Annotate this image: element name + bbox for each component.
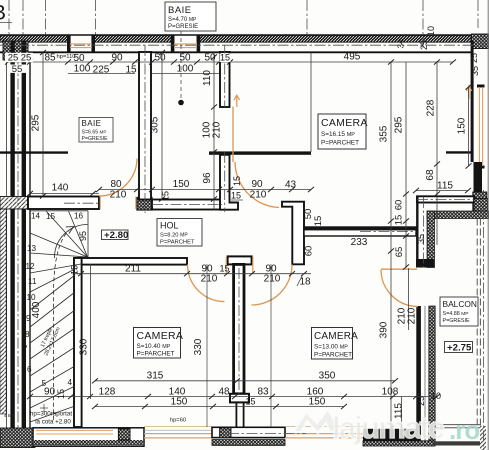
room label box: CAMERA bottom-right bbox=[312, 328, 359, 360]
svg-text:90: 90 bbox=[251, 179, 263, 190]
svg-text:295: 295 bbox=[394, 116, 405, 133]
baie-left south wall bbox=[0, 197, 28, 210]
svg-text:B: B bbox=[0, 2, 6, 25]
left bottom hatch block bbox=[0, 428, 35, 448]
room label box: CAMERA top-right bbox=[318, 114, 368, 149]
right page edge line bbox=[487, 0, 489, 450]
svg-text:HOL: HOL bbox=[160, 221, 179, 231]
svg-text:55: 55 bbox=[12, 64, 23, 75]
svg-text:228: 228 bbox=[426, 99, 437, 116]
svg-text:hp=300raportat: hp=300raportat bbox=[30, 411, 72, 418]
svg-text:S=8.20 MP: S=8.20 MP bbox=[160, 233, 188, 239]
left party wall bars bbox=[10, 41, 14, 428]
svg-text:140: 140 bbox=[52, 183, 69, 194]
svg-text:BAIE: BAIE bbox=[82, 119, 102, 128]
camera top-right south wall thick line bbox=[209, 151, 311, 154]
svg-text:150: 150 bbox=[171, 397, 188, 408]
svg-text:10: 10 bbox=[431, 391, 441, 401]
svg-text:25: 25 bbox=[469, 53, 479, 63]
right exterior wall upper black bar bbox=[471, 41, 474, 162]
stair walking line dashed with arrow bbox=[54, 228, 73, 420]
svg-text:12: 12 bbox=[26, 262, 36, 271]
svg-text:15: 15 bbox=[125, 65, 137, 76]
svg-text:P=GRESIE: P=GRESIE bbox=[443, 318, 471, 324]
svg-text:CAMERA: CAMERA bbox=[137, 330, 184, 342]
svg-text:100: 100 bbox=[74, 64, 91, 75]
camera-bl west wall bbox=[74, 258, 82, 427]
svg-text:lajumate: lajumate bbox=[332, 410, 445, 445]
right wall window (orange vertical) bbox=[477, 85, 485, 169]
svg-text:10: 10 bbox=[426, 26, 436, 36]
svg-text:+2.80: +2.80 bbox=[104, 230, 128, 241]
balcony door leaf and arc bbox=[381, 269, 418, 306]
svg-text:P=PARCHET: P=PARCHET bbox=[160, 240, 195, 246]
shower partition line in baie bbox=[0, 151, 68, 153]
door arc camera-bl bbox=[188, 265, 225, 302]
svg-text:50: 50 bbox=[154, 53, 166, 64]
camera/balcon wall below door bbox=[416, 306, 435, 446]
right edge gray hatch column bbox=[480, 426, 486, 450]
bottom wall: camera-bl window bbox=[144, 427, 212, 438]
wall x292 with top stub bbox=[282, 202, 304, 265]
dimension texts top row bbox=[5, 53, 33, 62]
svg-text:P=PARCHET: P=PARCHET bbox=[314, 352, 352, 359]
svg-text:350: 350 bbox=[319, 371, 336, 382]
svg-text:211: 211 bbox=[125, 264, 141, 275]
window W2 in top wall (baie sus) bbox=[171, 35, 200, 52]
bottom wall: hatch pier under camera-bl west bbox=[118, 429, 130, 440]
svg-text:50: 50 bbox=[179, 53, 191, 64]
balcony south edge lines bbox=[435, 424, 481, 426]
svg-text:4 5.5: 4 5.5 bbox=[4, 413, 15, 418]
right wall black band below window bbox=[474, 162, 483, 192]
svg-text:60: 60 bbox=[394, 200, 405, 211]
stair tread numbers bbox=[23, 212, 84, 389]
svg-text:95: 95 bbox=[78, 231, 88, 241]
door arc camera-br bbox=[252, 265, 293, 306]
svg-text:210: 210 bbox=[264, 274, 281, 285]
svg-text:50: 50 bbox=[204, 53, 216, 64]
bottom wall: camera-br window bbox=[285, 427, 363, 438]
baie door jambs bbox=[99, 197, 101, 210]
svg-text:34: 34 bbox=[397, 39, 406, 48]
watermark lajumate.ro bbox=[293, 409, 479, 445]
center T wall: cap bbox=[228, 256, 252, 264]
svg-text:90: 90 bbox=[44, 387, 56, 398]
svg-text:48: 48 bbox=[218, 387, 230, 398]
svg-text:210: 210 bbox=[407, 307, 418, 324]
dimension chain lines bbox=[8, 52, 469, 428]
svg-text:68: 68 bbox=[425, 169, 436, 181]
right wall hatch block bbox=[473, 192, 487, 212]
wall x220 upper segment bbox=[220, 52, 230, 107]
svg-text:13: 13 bbox=[27, 244, 37, 253]
svg-text:CAMERA: CAMERA bbox=[314, 331, 358, 342]
wall under baie-sus (hol north wall) bbox=[152, 200, 222, 210]
svg-text:390: 390 bbox=[379, 321, 390, 338]
bottom dim texts bbox=[44, 237, 441, 419]
room label box: CAMERA bottom-left bbox=[134, 328, 184, 359]
camera/balcon wall vertical bbox=[416, 197, 435, 268]
svg-text:295: 295 bbox=[31, 114, 42, 131]
room label box: BALCON bbox=[440, 297, 478, 326]
left edge vertical hatch strip bbox=[0, 198, 6, 414]
svg-text:100: 100 bbox=[177, 64, 194, 75]
svg-text:BAIE: BAIE bbox=[168, 5, 192, 16]
center T wall: foot bbox=[230, 394, 249, 403]
svg-text:210: 210 bbox=[110, 190, 127, 201]
orange arrow at right window bbox=[466, 85, 471, 99]
balcon north wall bbox=[417, 196, 474, 202]
svg-text:15: 15 bbox=[56, 389, 66, 399]
svg-text:210: 210 bbox=[201, 274, 218, 285]
svg-text:60: 60 bbox=[304, 246, 315, 257]
wall baie/hol vertical bbox=[139, 52, 151, 200]
svg-text:S=4.70 MP: S=4.70 MP bbox=[168, 17, 197, 23]
svg-text:25: 25 bbox=[8, 53, 19, 64]
staircase bbox=[30, 211, 88, 422]
svg-text:P=GRESIE: P=GRESIE bbox=[82, 136, 109, 142]
right side rotated dims bbox=[303, 99, 468, 338]
svg-text:S=4.88 MP: S=4.88 MP bbox=[443, 311, 469, 317]
svg-text:.ro: .ro bbox=[449, 415, 479, 445]
svg-text:15: 15 bbox=[231, 191, 241, 201]
svg-text:210: 210 bbox=[212, 121, 223, 138]
bottom wall: stair bay band bbox=[33, 428, 144, 446]
svg-text:15: 15 bbox=[46, 212, 56, 221]
level box +2.80 bbox=[102, 230, 129, 241]
svg-text:210: 210 bbox=[250, 190, 267, 201]
top-right corner hatch block bbox=[472, 34, 489, 49]
room label box: BAIE left bbox=[79, 118, 113, 143]
room label box: BAIE sus bbox=[165, 2, 216, 31]
svg-text:15: 15 bbox=[232, 176, 242, 186]
svg-text:25: 25 bbox=[416, 396, 426, 406]
svg-text:7: 7 bbox=[23, 345, 28, 354]
svg-text:115: 115 bbox=[437, 181, 453, 192]
svg-text:108: 108 bbox=[382, 387, 399, 398]
door dim row texts bbox=[52, 176, 311, 288]
svg-text:90: 90 bbox=[111, 53, 123, 64]
center T wall: stem bbox=[234, 264, 244, 393]
svg-text:P=PARCHET: P=PARCHET bbox=[137, 351, 175, 358]
svg-text:S=10.40 MP: S=10.40 MP bbox=[137, 343, 171, 350]
svg-text:la cota +2.80: la cota +2.80 bbox=[35, 419, 71, 426]
svg-text:35: 35 bbox=[416, 234, 426, 244]
door jambs orange at T cap bbox=[225, 257, 227, 274]
balcony bottom dark band bbox=[434, 441, 481, 445]
svg-text:11: 11 bbox=[28, 277, 37, 286]
camera-bl north wall bbox=[74, 258, 187, 265]
svg-text:96: 96 bbox=[202, 172, 213, 184]
baie door hinge hatch block bbox=[137, 198, 152, 211]
svg-text:15: 15 bbox=[161, 191, 171, 201]
svg-text:110: 110 bbox=[202, 70, 213, 86]
bottom wall: center pier bbox=[212, 427, 285, 437]
balcony east window lines bbox=[476, 219, 478, 427]
svg-text:25: 25 bbox=[21, 53, 32, 64]
svg-text:225: 225 bbox=[93, 65, 110, 76]
svg-text:4: 4 bbox=[68, 378, 73, 387]
svg-text:P=PARCHET: P=PARCHET bbox=[321, 140, 359, 147]
svg-text:S=16.15 MP: S=16.15 MP bbox=[321, 131, 355, 138]
level box +2.75 bbox=[445, 342, 473, 354]
door arc baie-left bbox=[99, 159, 137, 197]
svg-text:hp=60: hp=60 bbox=[170, 418, 186, 424]
svg-text:15: 15 bbox=[220, 53, 230, 63]
svg-text:65: 65 bbox=[394, 247, 405, 258]
room label box: HOL bbox=[157, 219, 202, 247]
svg-text:15: 15 bbox=[70, 265, 80, 275]
svg-text:6: 6 bbox=[27, 365, 32, 374]
svg-text:400: 400 bbox=[31, 301, 42, 318]
balcon hatch strip horizontal bbox=[427, 211, 489, 219]
svg-text:80: 80 bbox=[110, 179, 122, 190]
svg-text:83: 83 bbox=[257, 387, 269, 398]
wall x220 lower segment with foot bbox=[220, 155, 238, 210]
rotated dim texts left/top bbox=[31, 26, 481, 184]
svg-text:+2.75: +2.75 bbox=[447, 343, 472, 354]
bottom wall: black band right bbox=[363, 429, 417, 441]
svg-text:330: 330 bbox=[79, 338, 90, 355]
svg-text:330: 330 bbox=[193, 338, 204, 355]
svg-text:10: 10 bbox=[27, 293, 37, 302]
short wall stub right bbox=[446, 151, 473, 153]
svg-text:15: 15 bbox=[394, 215, 405, 226]
svg-text:14: 14 bbox=[31, 212, 41, 221]
top exterior wall hatched band bbox=[0, 35, 471, 52]
svg-text:15: 15 bbox=[245, 397, 255, 407]
svg-text:85: 85 bbox=[44, 53, 56, 64]
svg-text:233: 233 bbox=[351, 237, 368, 248]
svg-text:8: 8 bbox=[25, 330, 30, 339]
svg-text:15: 15 bbox=[313, 216, 324, 227]
door leaf+arc hol/camera-tr bbox=[233, 95, 279, 207]
svg-text:128: 128 bbox=[99, 387, 116, 398]
wall y227 horizontal (camera-br north) bbox=[304, 227, 416, 236]
svg-text:25: 25 bbox=[419, 40, 429, 50]
svg-text:150: 150 bbox=[173, 179, 190, 190]
svg-text:35: 35 bbox=[470, 66, 480, 76]
svg-text:495: 495 bbox=[344, 52, 361, 63]
svg-text:hp=110: hp=110 bbox=[56, 54, 75, 60]
svg-text:16: 16 bbox=[74, 212, 84, 221]
svg-text:CAMERA: CAMERA bbox=[321, 117, 368, 129]
svg-text:S=13.00 MP: S=13.00 MP bbox=[314, 344, 348, 351]
svg-text:43: 43 bbox=[285, 180, 297, 191]
stem continuation bars to bottom wall bbox=[235, 402, 237, 427]
svg-text:BALCON: BALCON bbox=[443, 299, 477, 309]
svg-text:355: 355 bbox=[379, 125, 390, 142]
svg-text:P=GRESIE: P=GRESIE bbox=[168, 24, 198, 30]
svg-text:15: 15 bbox=[219, 264, 229, 274]
svg-text:150: 150 bbox=[457, 117, 468, 134]
svg-text:305: 305 bbox=[150, 116, 161, 133]
drain dot + leader in baie-sus bbox=[180, 31, 182, 99]
svg-text:150: 150 bbox=[309, 397, 326, 408]
left party wall hatch block top bbox=[3, 41, 28, 60]
svg-text:315: 315 bbox=[147, 371, 164, 382]
window W1 in top wall bbox=[67, 35, 95, 52]
